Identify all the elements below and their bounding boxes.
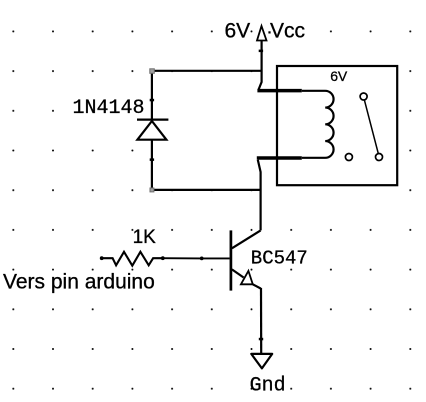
node base lead left end xyxy=(200,257,204,261)
relay coil L1 xyxy=(302,91,334,158)
relay switch NO contact xyxy=(376,154,383,161)
white backdrop of pasted diode/relay artwork xyxy=(158,74,277,188)
wire bottom horizontal (diode to collector net) xyxy=(152,189,261,191)
wire emitter to ground xyxy=(260,288,262,354)
wire resistor to base xyxy=(163,257,202,259)
junction node bottom of diode xyxy=(150,188,154,192)
transistor Q1 BC547 xyxy=(231,230,261,290)
svg-text:Gnd: Gnd xyxy=(250,375,286,398)
resistor R1 1K xyxy=(100,252,163,266)
svg-text:6V: 6V xyxy=(330,68,348,84)
svg-text:BC547: BC547 xyxy=(251,248,308,270)
relay switch NC contact xyxy=(345,154,352,161)
diode D1 1N4148 xyxy=(137,71,168,190)
wire relay bottom pin to collector xyxy=(258,160,261,231)
relay coil pin top (thick) xyxy=(257,89,301,93)
relay switch blade xyxy=(364,100,378,153)
relay K1 box xyxy=(277,66,397,185)
wire Vcc vertical xyxy=(258,41,261,91)
svg-text:Vers pin arduino: Vers pin arduino xyxy=(3,271,155,294)
relay switch common contact xyxy=(360,93,367,100)
junction node top of diode xyxy=(150,69,155,74)
svg-text:1K: 1K xyxy=(133,227,157,248)
wire top horizontal xyxy=(152,70,262,72)
pin tick on emitter wire xyxy=(259,338,263,341)
svg-text:Vcc: Vcc xyxy=(270,19,305,42)
svg-text:1N4148: 1N4148 xyxy=(73,97,145,120)
node dot before Vcc xyxy=(268,31,270,33)
node resistor right end xyxy=(161,256,165,260)
power symbol Vcc arrow xyxy=(257,26,267,41)
ground symbol xyxy=(251,354,272,369)
relay coil pin bottom (thick) xyxy=(257,156,302,160)
relay bottom margin white xyxy=(278,187,396,196)
wire base lead xyxy=(202,257,230,259)
pin tick on Vcc wire xyxy=(259,50,263,53)
label 6V Vcc background xyxy=(286,27,298,37)
label 1N4148 background xyxy=(69,95,149,116)
svg-text:6V: 6V xyxy=(225,19,251,42)
